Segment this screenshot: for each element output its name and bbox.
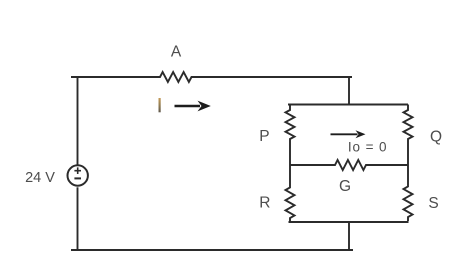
svg-text:G: G <box>339 178 351 195</box>
wire left vertical upper <box>77 77 79 165</box>
wire top connector to bridge <box>348 77 350 105</box>
resistor P <box>286 105 295 166</box>
wire bottom connector from bridge <box>348 222 350 250</box>
current arrow I <box>175 101 211 112</box>
svg-text:Q: Q <box>430 129 442 146</box>
wire bottom rail <box>71 249 353 251</box>
wire bridge middle rail with resistor G <box>290 160 408 170</box>
wire left vertical lower <box>77 187 79 250</box>
svg-text:Io = 0: Io = 0 <box>348 140 388 155</box>
wire bridge bottom rail <box>289 221 409 223</box>
voltage source V1 24V <box>68 165 88 185</box>
svg-text:A: A <box>171 44 182 61</box>
resistor S <box>404 165 413 221</box>
svg-text:24 V: 24 V <box>25 170 55 186</box>
resistor R <box>286 165 295 222</box>
svg-text:S: S <box>428 195 438 212</box>
wire top rail with resistor A <box>71 72 352 82</box>
svg-text:P: P <box>259 128 269 145</box>
resistor Q <box>404 105 413 166</box>
wire bridge top rail <box>288 104 408 106</box>
current arrow Io <box>331 130 366 138</box>
svg-text:R: R <box>259 195 270 212</box>
